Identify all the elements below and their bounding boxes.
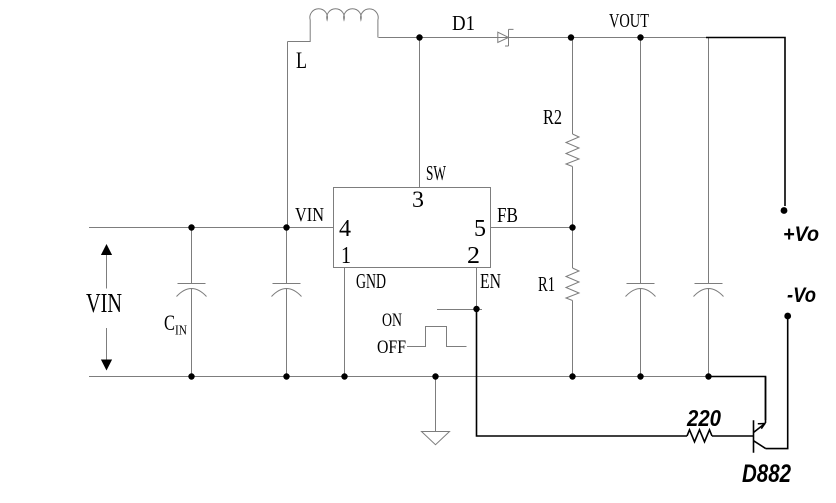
wire: ground rail black extension	[706, 377, 766, 421]
svg-text:-Vo: -Vo	[787, 284, 816, 307]
resistor 220	[687, 430, 712, 442]
svg-text:IN: IN	[175, 324, 187, 339]
capacitor C2 (input)	[272, 228, 302, 377]
junction node: EN	[473, 306, 479, 312]
wire: EN node stub	[437, 309, 482, 311]
capacitor CIN	[177, 228, 207, 377]
svg-text:EN: EN	[480, 269, 501, 293]
inductor L	[288, 9, 379, 42]
svg-text:2: 2	[467, 243, 480, 269]
wire: GND pin 1 to ground rail	[344, 268, 346, 377]
svg-text:VOUT: VOUT	[609, 10, 649, 32]
svg-text:+Vo: +Vo	[783, 223, 819, 246]
terminal node: -Vo	[784, 313, 791, 320]
svg-text:VIN: VIN	[86, 288, 122, 318]
capacitor C3 (output)	[626, 38, 656, 377]
terminal node: +Vo	[781, 207, 788, 214]
wire: EN to base resistor	[477, 312, 688, 436]
ground symbol stem	[435, 377, 437, 432]
transistor emitter arrowhead	[758, 424, 765, 429]
svg-text:4: 4	[339, 216, 351, 242]
VIN measure arrowheads	[101, 244, 112, 371]
wire: ground rail	[89, 376, 708, 378]
ground symbol	[422, 432, 450, 445]
wire: top rail black extension to +Vo	[706, 38, 785, 207]
wire: SW pin to top rail	[419, 38, 421, 188]
wire: VIN input rail	[89, 227, 333, 229]
wire: collector to -Vo	[766, 319, 788, 449]
junction node: ground symbol	[432, 373, 438, 379]
junction node: D1 cathode / R2	[568, 34, 574, 40]
svg-text:VIN: VIN	[295, 204, 324, 226]
wire: top VOUT rail	[379, 37, 709, 39]
junction node: inductor/diode/SW	[416, 34, 422, 40]
svg-text:GND: GND	[356, 269, 386, 293]
junction node: VOUT / C3	[637, 34, 643, 40]
svg-text:L: L	[296, 48, 307, 73]
wire: 220 to transistor base	[712, 435, 753, 437]
junction node: R1 bottom	[569, 373, 575, 379]
VIN measure arrow stem	[106, 255, 108, 360]
svg-text:5: 5	[474, 216, 486, 242]
svg-text:R1: R1	[538, 272, 555, 296]
svg-text:FB: FB	[497, 203, 518, 227]
svg-text:3: 3	[412, 187, 424, 212]
ON/OFF pulse waveform	[407, 327, 467, 347]
svg-text:D882: D882	[742, 460, 791, 488]
svg-text:1: 1	[341, 243, 351, 269]
resistor R2	[566, 134, 579, 167]
junction node: CIN top	[188, 224, 194, 230]
junction node: FB divider	[569, 224, 575, 230]
wire: R2 bottom to FB node	[572, 167, 574, 269]
IC U1 (boost converter) body	[334, 188, 491, 268]
junction node: C2 top	[283, 224, 289, 230]
junction node: CIN bottom	[188, 373, 194, 379]
svg-text:R2: R2	[543, 105, 562, 129]
svg-text:OFF: OFF	[377, 337, 406, 358]
svg-text:SW: SW	[426, 161, 446, 185]
wire: riser from VIN rail to inductor	[287, 42, 289, 228]
svg-text:C: C	[164, 310, 175, 335]
svg-text:220: 220	[686, 405, 721, 431]
wire: FB pin to divider	[491, 227, 573, 229]
svg-text:D1: D1	[452, 11, 475, 35]
junction node: C3 bottom	[637, 373, 643, 379]
wire: emitter to ground rail	[765, 377, 767, 424]
transistor Q1 D882	[754, 420, 766, 452]
capacitor C4 (output)	[694, 38, 724, 377]
wire: R1 bottom lead	[572, 301, 574, 377]
wire: EN pin 2 down to EN node	[476, 268, 478, 310]
svg-text:ON: ON	[382, 310, 402, 331]
junction node: C2 bottom	[283, 373, 289, 379]
junction node: C4 bottom	[705, 373, 711, 379]
resistor R1	[566, 268, 579, 301]
diode D1 (schottky)	[498, 29, 514, 46]
junction node: GND pin	[341, 373, 347, 379]
wire: R2 top lead	[572, 38, 574, 135]
